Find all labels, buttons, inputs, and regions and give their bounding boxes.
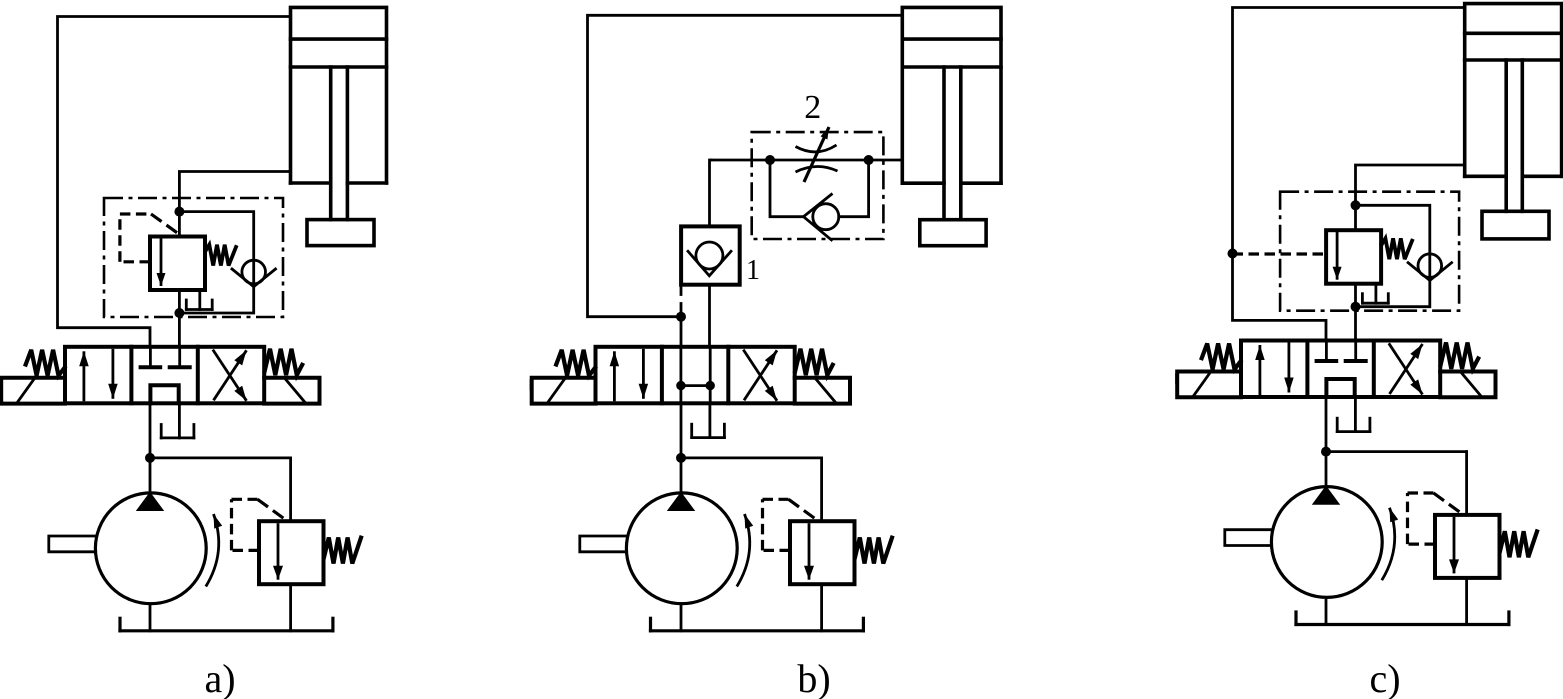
a relief relief valve square: [259, 521, 324, 584]
a relief relief valve pilot line: [232, 499, 285, 550]
a cylinder piston: [291, 39, 387, 67]
c label c): [1369, 656, 1400, 699]
c directional valve center A blocked port: [1317, 341, 1337, 362]
svg-text:b): b): [797, 656, 830, 699]
c supply line junction dot: [1228, 249, 1238, 259]
c directional valve right-position crossed arrow SE: [1389, 343, 1423, 394]
a directional valve left solenoid diagonal: [17, 379, 34, 403]
a directional valve right solenoid box: [264, 378, 319, 404]
c directional valve center P-T bridge: [1326, 379, 1354, 397]
b check valve 1 box: [681, 226, 740, 284]
c wire valve assembly through line: [1354, 205, 1357, 340]
c directional valve left-position down arrow: [1284, 343, 1294, 393]
c directional valve valve body: [1241, 341, 1440, 398]
c pump circle: [1271, 487, 1382, 598]
b directional valve left solenoid diagonal: [548, 379, 565, 403]
c wire T-port to tank: [1354, 397, 1357, 432]
b directional valve left solenoid box: [532, 378, 596, 404]
b bypass check valve: [804, 194, 839, 240]
a cylinder barrel: [291, 7, 387, 183]
a directional valve right return spring: [265, 349, 303, 375]
c relief relief valve square: [1435, 515, 1500, 578]
b cylinder rod end plate: [920, 220, 986, 246]
c relief relief valve spring: [1500, 531, 1537, 557]
a directional valve right-position crossed arrow SE: [213, 350, 247, 401]
b pump rotation arrow: [737, 514, 753, 587]
a wire cylinder cap-side supply: [58, 17, 291, 347]
a back-pressure valve inlet junction dot: [174, 207, 184, 217]
b directional valve right solenoid diagonal: [816, 379, 836, 403]
svg-text:1: 1: [746, 255, 760, 286]
b relief relief valve inlet line: [681, 458, 822, 521]
a wire T-port to tank: [178, 403, 181, 438]
a back-pressure valve pilot line: [120, 214, 178, 262]
c sequence valve inlet junction dot: [1351, 200, 1361, 210]
a relief relief valve inlet line: [150, 458, 291, 521]
b directional valve right-position crossed arrow NE: [744, 350, 777, 400]
b throttle left junction dot: [765, 155, 775, 165]
b directional valve center junction dot right: [706, 381, 715, 390]
b directional valve left-position down arrow: [639, 349, 649, 399]
c cylinder barrel: [1465, 4, 1562, 177]
a relief relief valve flow arrow: [273, 523, 283, 580]
a back-pressure valve check valve: [232, 260, 276, 287]
c directional valve right solenoid diagonal: [1461, 373, 1481, 397]
b wire junction to valve A-port: [680, 304, 683, 347]
svg-text:a): a): [204, 656, 235, 699]
a back-pressure valve valve square: [150, 237, 205, 291]
a directional valve left solenoid box: [1, 378, 65, 404]
a relief relief valve spring: [324, 538, 361, 564]
c directional valve right-position crossed arrow NE: [1390, 344, 1423, 394]
c tank line: [1296, 612, 1509, 625]
a directional valve left return spring: [26, 350, 65, 376]
b directional valve right return spring: [795, 349, 833, 375]
c directional valve right return spring: [1441, 343, 1479, 369]
a back-pressure valve outlet junction dot: [174, 308, 184, 318]
c sequence valve remote pilot line: [1233, 252, 1327, 255]
a back-pressure valve drain tank symbol: [186, 300, 212, 310]
c sequence valve drain line: [1375, 284, 1378, 304]
a relief relief valve drain line: [289, 584, 292, 631]
b wire cylinder cap-side supply: [588, 15, 903, 316]
c sequence valve check valve branch line: [1356, 205, 1430, 306]
b relief relief valve square: [790, 521, 855, 584]
a pump drive shaft: [49, 536, 95, 552]
b relief relief valve flow arrow: [804, 523, 814, 580]
c cylinder piston: [1465, 33, 1562, 60]
a directional valve left-position up arrow: [79, 351, 89, 401]
c sequence valve check valve: [1408, 254, 1452, 280]
b cylinder piston: [902, 39, 1001, 67]
b pump outlet junction dot: [676, 453, 686, 463]
svg-text:2: 2: [804, 89, 821, 126]
b relief relief valve drain line: [820, 584, 823, 631]
b check valve 1: [688, 242, 731, 276]
c pump drive shaft: [1225, 530, 1271, 546]
b directional valve tank symbol: [692, 424, 725, 437]
a directional valve right-position crossed arrow NE: [214, 350, 247, 400]
c pump rotation arrow: [1382, 508, 1398, 581]
c wire cylinder rod-side to valve assembly: [1356, 165, 1465, 205]
c directional valve left solenoid diagonal: [1193, 373, 1210, 397]
b directional valve valve body: [596, 347, 795, 404]
c sequence valve valve square: [1326, 230, 1381, 284]
a wire pump to tank: [149, 604, 152, 631]
b bypass branch line: [770, 160, 869, 217]
b junction dot: [676, 312, 686, 322]
c pump outlet junction dot: [1321, 447, 1331, 457]
b wire throttle main line: [711, 159, 902, 162]
b pump circle: [626, 493, 737, 604]
c directional valve tank symbol: [1337, 418, 1370, 431]
b pump outlet triangle: [667, 492, 695, 511]
c sequence valve drain tank symbol: [1362, 294, 1388, 304]
c wire cylinder cap-side supply: [1233, 8, 1465, 341]
c relief relief valve drain line: [1465, 578, 1468, 625]
c wire P-port to pump: [1325, 397, 1328, 487]
a directional valve left solenoid terminal tab: [0, 379, 3, 390]
a tank line: [120, 618, 333, 631]
c relief relief valve pilot line: [1408, 493, 1461, 544]
b tank line: [651, 618, 864, 631]
a pump rotation arrow: [206, 514, 222, 587]
a directional valve valve body: [65, 347, 264, 404]
b directional valve right-position crossed arrow SE: [743, 350, 777, 401]
a label a): [204, 656, 235, 699]
b flow control enclosure (dash-dot box): [752, 132, 884, 239]
c relief relief valve inlet line: [1326, 452, 1467, 515]
a back-pressure valve valve spring: [206, 245, 237, 266]
b wire P-port to pump: [680, 403, 683, 493]
c cylinder piston rod: [1506, 60, 1522, 211]
a directional valve center P-T bridge: [150, 385, 178, 403]
c cylinder rod end plate: [1482, 211, 1549, 239]
a back-pressure valve check valve branch line: [179, 212, 253, 313]
b wire pump to tank: [680, 604, 683, 631]
c sequence valve enclosure (dash-dot box): [1280, 192, 1459, 311]
b directional valve center junction dot left: [676, 381, 685, 390]
c relief relief valve flow arrow: [1449, 517, 1459, 574]
a pump outlet triangle: [136, 492, 164, 511]
b label 1: [746, 255, 760, 286]
b directional valve right solenoid box: [795, 378, 850, 404]
a directional valve center A blocked port: [141, 347, 161, 368]
b relief relief valve spring: [855, 538, 892, 564]
a wire cylinder rod-side to valve assembly: [179, 172, 290, 212]
c directional valve left return spring: [1202, 344, 1241, 370]
b wire T-port to tank: [709, 403, 712, 437]
c directional valve center B blocked port: [1346, 341, 1366, 362]
c directional valve left solenoid terminal tab: [1175, 373, 1179, 384]
a back-pressure valve enclosure (dash-dot box): [104, 198, 283, 317]
b label b): [797, 656, 830, 699]
b directional valve center B-T through line: [709, 347, 712, 404]
b throttle orifice arcs: [796, 145, 838, 172]
b pump drive shaft: [580, 536, 626, 552]
b directional valve left-position up arrow: [610, 351, 620, 401]
a pump outlet junction dot: [145, 453, 155, 463]
b cylinder piston rod: [944, 67, 961, 220]
a back-pressure valve valve flow arrow: [157, 238, 166, 286]
c sequence valve valve spring: [1382, 238, 1413, 259]
c pump outlet triangle: [1312, 486, 1340, 505]
c directional valve left-position up arrow: [1255, 345, 1265, 395]
b relief relief valve pilot line: [763, 499, 816, 550]
b directional valve left solenoid terminal tab: [530, 379, 534, 390]
svg-text:c): c): [1369, 656, 1400, 699]
b throttle right junction dot: [864, 155, 874, 165]
a directional valve center B blocked port: [170, 347, 190, 368]
c wire pump to tank: [1325, 597, 1328, 624]
b label 2: [804, 89, 821, 126]
a pump circle: [95, 493, 206, 604]
a wire valve assembly through line: [178, 212, 181, 347]
b cylinder barrel: [902, 7, 1001, 183]
a cylinder rod end plate: [307, 220, 374, 246]
b wire check valve to valve B-port: [708, 285, 711, 347]
b directional valve center bridge line: [681, 384, 710, 387]
a wire P-port to pump: [149, 403, 152, 493]
b directional valve left return spring: [556, 350, 595, 376]
c directional valve right solenoid box: [1440, 372, 1495, 398]
a cylinder piston rod: [331, 67, 348, 220]
a directional valve right solenoid diagonal: [285, 379, 305, 403]
c directional valve left solenoid box: [1177, 372, 1241, 398]
a back-pressure valve drain line: [198, 290, 201, 310]
c sequence valve valve flow arrow: [1333, 232, 1342, 280]
a directional valve left-position down arrow: [108, 349, 118, 399]
c sequence valve outlet junction dot: [1351, 302, 1361, 312]
b wire throttle to check valve: [710, 160, 712, 226]
b wire stub below check valve box: [680, 285, 683, 295]
b directional valve center A-P through line: [680, 347, 683, 404]
b throttle adjustment arrow: [804, 127, 829, 182]
a directional valve tank symbol: [161, 425, 194, 438]
